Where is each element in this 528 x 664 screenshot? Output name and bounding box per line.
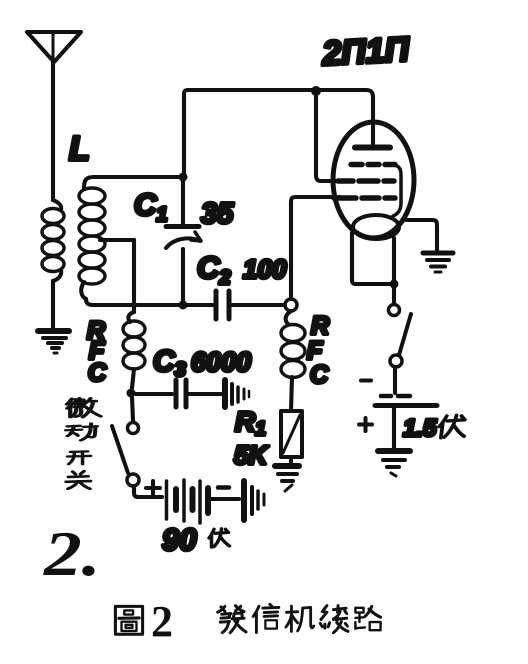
switch S1 wire down <box>132 397 133 421</box>
caption 路 <box>355 606 380 630</box>
capacitor C2 (100) <box>216 291 285 319</box>
label RFC right <box>307 312 329 389</box>
label 微 (switch text char 1) <box>67 398 101 417</box>
minus label <box>361 379 371 383</box>
resistor R1 <box>281 411 302 457</box>
node junction C1 bottom <box>179 301 188 310</box>
node filament junction <box>390 280 399 289</box>
wire to switch contact <box>392 288 396 303</box>
suppressor internal lead <box>393 165 401 216</box>
svg-text:90: 90 <box>162 522 196 557</box>
wire grid junction up to control grid <box>291 197 340 299</box>
svg-text:2П1П: 2П1П <box>320 30 411 73</box>
filament lead left + bottom <box>352 233 394 284</box>
wire battery to ground <box>392 408 396 448</box>
caption 圖 <box>115 606 142 634</box>
ground (antenna coil) <box>38 331 69 353</box>
coil tap wire <box>100 238 134 242</box>
svg-text:C3: C3 <box>153 345 186 381</box>
svg-text:2: 2 <box>151 597 173 646</box>
tank coil (grid coil) <box>79 177 105 299</box>
wire up from junction to plate line <box>184 90 188 177</box>
wire R1 to ground <box>289 457 293 463</box>
caption 發 <box>218 606 246 633</box>
filament oval <box>353 215 399 239</box>
battery B2 long plate <box>375 403 437 408</box>
svg-text:6000: 6000 <box>191 347 251 377</box>
90V chassis plate <box>244 481 264 520</box>
switch S1 fixed contact <box>128 423 139 434</box>
node RFC junction <box>127 389 136 398</box>
screen wire from top junction <box>316 91 338 181</box>
svg-text:C: C <box>310 361 329 389</box>
svg-text:5K: 5K <box>234 440 269 470</box>
switch S2 fixed contact <box>389 305 400 316</box>
wire coil L to ground <box>51 281 55 330</box>
svg-text:35: 35 <box>201 198 234 230</box>
grid row 3 (control grid) <box>334 195 395 201</box>
C3 chassis plate <box>225 380 249 407</box>
bottom wire of tank circuit <box>86 299 213 305</box>
caption 綫 <box>320 606 348 633</box>
plate <box>355 145 390 151</box>
svg-text:R: R <box>311 312 329 340</box>
wire junction to C3 <box>135 392 172 396</box>
node grid junction (open) <box>285 299 297 311</box>
wire antenna to coil L <box>51 62 55 200</box>
caption 信 <box>253 604 279 632</box>
filament lead right <box>392 238 396 284</box>
svg-text:2.: 2. <box>43 519 101 589</box>
svg-text:C: C <box>88 359 107 387</box>
inductor L (antenna coil) <box>42 200 64 281</box>
label 开 (switch text char 3) <box>67 451 90 464</box>
caption 机 <box>286 606 314 631</box>
svg-text:1.5: 1.5 <box>403 415 437 442</box>
antenna <box>27 32 81 62</box>
RFC right coil <box>281 311 305 411</box>
capacitor C3 (6000) <box>176 380 221 407</box>
wire pivot to battery 90V <box>134 486 162 497</box>
ground (filament) <box>423 253 453 272</box>
minus label 90V <box>218 485 229 490</box>
battery B1 90V cells <box>167 480 209 523</box>
wire filament to ground right <box>406 220 437 251</box>
grid row 2 (screen) <box>338 178 394 184</box>
wire tap down to RFC (crosses bottom wire) <box>132 240 136 312</box>
svg-text:C2: C2 <box>197 250 231 289</box>
svg-text:100: 100 <box>243 254 287 284</box>
label 关 (switch text char 4) <box>66 471 91 489</box>
wire top horizontal to tube plate <box>188 90 373 146</box>
plus label <box>359 418 372 431</box>
label RFC left <box>87 317 107 387</box>
label 伏 (90V unit) <box>209 529 230 547</box>
tube envelope U1 <box>333 122 414 238</box>
capacitor C1 (variable 35) <box>166 177 201 305</box>
grid row 1 (suppressor) <box>351 162 395 168</box>
wire to chassis plate <box>211 497 239 501</box>
switch S2 arm <box>399 314 411 355</box>
svg-text:R1: R1 <box>235 406 266 440</box>
label 动 (switch text char 2) <box>66 424 97 441</box>
ground (1.5V battery) <box>378 451 410 476</box>
switch S2 pivot <box>390 355 402 367</box>
ground (R1) <box>275 466 299 491</box>
node junction C1 top <box>179 173 188 182</box>
switch S1 arm <box>112 426 128 473</box>
node junction top (screen tap) <box>311 86 321 96</box>
label 伏 (1.5V unit) <box>438 415 467 437</box>
switch S1 pivot <box>127 474 139 486</box>
battery B2 short plate <box>381 394 410 399</box>
plus label 90V <box>146 481 160 495</box>
svg-text:L: L <box>69 130 90 168</box>
svg-text:C1: C1 <box>134 187 168 226</box>
wire pivot to battery <box>393 367 397 393</box>
wire tank coil top to C1 <box>94 175 183 179</box>
RFC left coil <box>123 312 145 388</box>
